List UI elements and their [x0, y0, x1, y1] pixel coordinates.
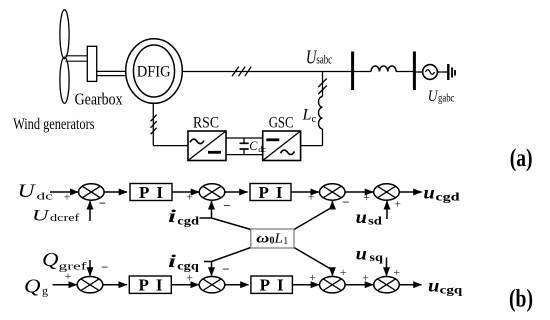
svg-text:−: −	[222, 262, 229, 277]
svg-text:+: +	[65, 269, 72, 283]
svg-text:dcref: dcref	[50, 212, 80, 224]
svg-text:−: −	[223, 198, 230, 213]
svg-text:(a): (a)	[510, 145, 533, 172]
svg-text:Gearbox: Gearbox	[75, 90, 124, 109]
svg-text:sabc: sabc	[316, 53, 332, 67]
svg-text:+: +	[308, 190, 315, 204]
svg-text:sq: sq	[369, 250, 383, 264]
svg-text:U: U	[32, 207, 51, 224]
svg-text:1: 1	[283, 236, 288, 247]
svg-text:u: u	[356, 243, 367, 263]
svg-text:GSC: GSC	[269, 115, 294, 132]
svg-text:sd: sd	[368, 213, 382, 227]
svg-text:g: g	[42, 284, 48, 298]
svg-text:i: i	[168, 251, 176, 271]
svg-text:−: −	[101, 260, 108, 275]
svg-text:u: u	[428, 276, 439, 296]
svg-text:Q: Q	[24, 276, 41, 298]
svg-text:dc: dc	[37, 190, 53, 202]
svg-text:ω: ω	[256, 230, 269, 245]
svg-text:gref: gref	[59, 261, 88, 273]
svg-text:L: L	[273, 230, 283, 245]
svg-text:RSC: RSC	[193, 115, 219, 132]
svg-text:−: −	[342, 195, 349, 210]
svg-text:cgd: cgd	[177, 216, 200, 228]
svg-text:cgd: cgd	[436, 189, 461, 203]
svg-text:+: +	[64, 190, 71, 204]
svg-text:(b): (b)	[509, 286, 533, 313]
svg-text:+: +	[186, 190, 193, 204]
svg-text:Q: Q	[42, 249, 59, 271]
svg-text:+: +	[186, 271, 193, 285]
svg-text:i: i	[168, 206, 176, 226]
svg-text:+: +	[340, 265, 347, 279]
svg-text:C: C	[249, 139, 258, 153]
svg-text:u: u	[423, 183, 434, 203]
svg-text:−: −	[99, 196, 106, 211]
svg-text:dc: dc	[258, 144, 266, 154]
svg-text:+: +	[362, 271, 369, 285]
svg-text:c: c	[312, 113, 317, 125]
svg-text:Wind generators: Wind generators	[13, 116, 94, 133]
svg-text:+: +	[393, 265, 400, 279]
svg-text:DFIG: DFIG	[137, 64, 171, 81]
svg-text:+: +	[309, 270, 316, 284]
svg-text:L: L	[301, 107, 311, 124]
svg-text:U: U	[18, 182, 37, 202]
svg-text:+: +	[363, 190, 370, 204]
svg-text:+: +	[394, 197, 401, 211]
svg-text:gabc: gabc	[438, 92, 454, 104]
svg-text:u: u	[356, 207, 367, 227]
svg-text:cgq: cgq	[440, 283, 463, 297]
